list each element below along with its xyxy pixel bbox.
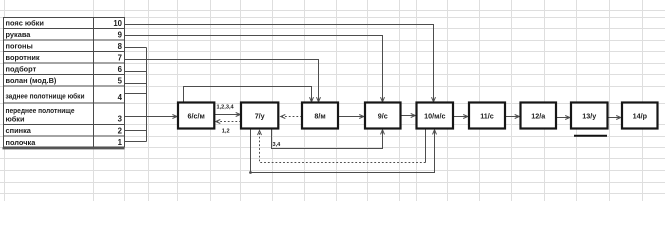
wire row4 stub: [125, 93, 147, 95]
svg-text:11/с: 11/с: [480, 111, 494, 120]
box labels: [188, 111, 648, 120]
arrow 10/м/с to 11/с: [453, 116, 467, 118]
box 14/р: [622, 103, 658, 129]
box 8/м: [302, 103, 338, 129]
svg-text:волан (мод.В): волан (мод.В): [6, 76, 57, 85]
svg-text:1,2: 1,2: [222, 128, 230, 134]
wire row8 stub: [125, 47, 147, 49]
box 11/с: [469, 103, 505, 129]
box 10/м/с: [417, 103, 454, 129]
box 12/а: [521, 103, 557, 129]
svg-text:5: 5: [118, 77, 123, 86]
svg-text:юбки: юбки: [6, 115, 25, 124]
dashed return 10/м/с to 7/у bottom: [260, 131, 426, 163]
svg-text:воротник: воротник: [6, 53, 40, 62]
connector wires: [125, 25, 620, 173]
parts table thick bottom border: [3, 147, 125, 149]
svg-text:8/м: 8/м: [314, 111, 325, 120]
dashed return 8/м to 7/у: [281, 116, 302, 118]
arrow 12/а to 13/у: [556, 117, 569, 119]
wire row5 stub: [125, 83, 147, 85]
wire box6 top bypass to box 8/м top: [184, 87, 312, 103]
svg-text:заднее полотнище юбки: заднее полотнище юбки: [6, 92, 85, 101]
box 7/у: [241, 103, 278, 129]
path 7/у bottom to 9/с bottom (3,4): [272, 129, 383, 149]
wire row7 to box 8/м top: [125, 60, 319, 102]
svg-text:спинка: спинка: [6, 126, 32, 135]
wire row2 stub: [125, 130, 147, 132]
wire row10 to box 10/м/с top: [125, 25, 434, 102]
return path 7/у bottom to 10/м/с bottom: [251, 129, 435, 173]
svg-text:14/р: 14/р: [633, 111, 648, 120]
box 9/с: [365, 103, 401, 129]
svg-text:6/с/м: 6/с/м: [188, 111, 205, 120]
arrow 8/м to 9/с: [338, 116, 363, 118]
box 6/с/м: [178, 103, 214, 129]
small wire labels: [217, 105, 282, 149]
svg-text:9: 9: [118, 31, 123, 40]
box 13/у: [571, 103, 608, 129]
svg-text:7: 7: [118, 54, 122, 63]
svg-text:полочка: полочка: [6, 138, 37, 147]
wire row1 stub: [125, 141, 147, 143]
dashed return 7/у to 6/с/м: [216, 121, 241, 123]
wire row6 stub: [125, 71, 147, 73]
svg-text:6: 6: [118, 65, 123, 74]
svg-text:13/у: 13/у: [582, 111, 596, 120]
table row labels: [6, 19, 123, 148]
svg-text:7/у: 7/у: [255, 111, 265, 120]
svg-text:3,4: 3,4: [273, 142, 282, 148]
wire row3 main feed into box 6/с/м: [125, 116, 177, 118]
svg-text:погоны: погоны: [6, 42, 33, 51]
parts table borders: [4, 18, 125, 148]
vertical up into 10/м/с bottom from dashed return: [425, 129, 427, 163]
arrow 11/с to 12/а: [505, 116, 519, 118]
svg-text:2: 2: [118, 127, 123, 136]
svg-text:8: 8: [118, 42, 123, 51]
svg-text:1,2,3,4: 1,2,3,4: [217, 105, 235, 111]
underline below 13/у: [574, 135, 607, 137]
svg-text:подборт: подборт: [6, 65, 37, 74]
svg-text:рукава: рукава: [6, 30, 32, 39]
svg-text:12/а: 12/а: [531, 111, 546, 120]
process boxes: [178, 103, 658, 129]
svg-text:1: 1: [118, 138, 123, 147]
svg-text:4: 4: [118, 93, 123, 102]
arrow 9/с to 10/м/с: [401, 115, 415, 117]
trunk vertical: [146, 48, 148, 142]
arrow 6/с/м to 7/у: [214, 114, 240, 116]
parts table background: [3, 17, 125, 147]
svg-text:10: 10: [113, 19, 122, 28]
svg-text:3: 3: [118, 115, 123, 124]
junction dot: [249, 171, 252, 174]
svg-text:9/с: 9/с: [378, 111, 388, 120]
svg-text:10/м/с: 10/м/с: [424, 111, 445, 120]
svg-text:пояс юбки: пояс юбки: [6, 19, 45, 28]
wire row9 to box 9/с top: [125, 36, 383, 102]
arrow 13/у to 14/р: [608, 117, 621, 119]
